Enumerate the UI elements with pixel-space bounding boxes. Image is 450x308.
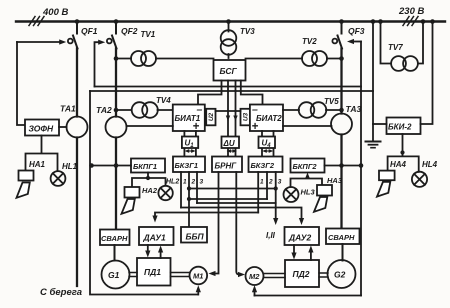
wire TV2 to gen2 bus <box>327 58 342 60</box>
node BKPG2 on trip line <box>359 163 364 168</box>
svg-text:БСГ: БСГ <box>220 66 238 76</box>
wire trip bus <box>95 86 362 88</box>
lamp HL1 <box>51 162 78 186</box>
wire gen2 bus (QF3 down) <box>340 49 342 229</box>
svg-text:QF2: QF2 <box>121 26 138 36</box>
svg-text:I,II: I,II <box>266 231 276 240</box>
arrow into DAU1 <box>152 216 157 223</box>
horn HA2 <box>122 186 158 214</box>
node return-line top junction <box>371 19 376 24</box>
transformer TV1 <box>131 30 156 66</box>
svg-text:БКПГ1: БКПГ1 <box>133 162 157 171</box>
wire BIAT2 to TV5 <box>283 109 299 111</box>
svg-text:QF3: QF3 <box>348 26 365 36</box>
node BKPG1 split <box>146 176 150 180</box>
lamp HL3 <box>284 187 316 202</box>
svg-text:НА1: НА1 <box>29 160 46 169</box>
pin 1 BKZG2 <box>257 172 259 213</box>
block ZOFN <box>25 120 59 136</box>
svg-text:230 В: 230 В <box>398 6 424 17</box>
svg-text:БИАТ2: БИАТ2 <box>256 114 282 123</box>
svg-text:QF1: QF1 <box>81 26 98 36</box>
svg-text:2: 2 <box>191 179 196 186</box>
wire TA2 to BIAT1 <box>127 125 173 127</box>
arrow U1 span <box>185 149 196 153</box>
svg-text:+: + <box>252 121 259 133</box>
transformer TV2 <box>302 37 327 66</box>
svg-text:U3: U3 <box>243 112 250 121</box>
wire bottom right return <box>255 295 362 297</box>
wire BRNG pin M1 <box>213 172 219 274</box>
wire SVARN1 to G1 <box>114 245 116 261</box>
block BIAT2 <box>250 104 283 134</box>
block BKI-2 <box>387 118 421 135</box>
current transformer TA2 <box>106 117 127 138</box>
block SVARN2 <box>326 229 360 245</box>
node BKPG2 on gen2 bus <box>339 163 344 168</box>
wire BSG to TV2 <box>246 58 303 60</box>
node TV3 top junction <box>226 19 231 24</box>
shaft M2-PD2 <box>264 274 286 278</box>
wire DAU2-PD2 down arrow <box>293 245 295 254</box>
wire BKI-2 down split <box>388 134 419 172</box>
wire TV1 left <box>116 58 131 60</box>
wire routing H4 <box>181 208 302 221</box>
transformer TV7 <box>381 22 424 71</box>
wire PD2-DAU2 up arrow <box>310 251 312 261</box>
wire U4 right drop <box>273 131 275 157</box>
svg-text:ДАУ1: ДАУ1 <box>143 233 166 243</box>
svg-text:С берега: С берега <box>40 287 82 298</box>
svg-text:HL3: HL3 <box>301 188 316 197</box>
node BKI2 right top junction <box>430 19 435 24</box>
svg-text:ТА2: ТА2 <box>96 105 112 115</box>
breaker QF1 <box>68 22 98 49</box>
node BKPG1 on gen1 bus <box>114 163 119 168</box>
svg-text:БКЗГ1: БКЗГ1 <box>175 161 199 170</box>
svg-text:ПД1: ПД1 <box>144 267 161 277</box>
breaker QF3 <box>332 22 364 49</box>
arrow into DAU2 <box>299 218 304 225</box>
block SVARN1 <box>100 230 130 246</box>
wire U2-U3 link <box>216 110 241 112</box>
wire QF2 trip arrow <box>95 40 106 87</box>
ground <box>366 142 381 148</box>
pin 2 BKZG2 <box>266 172 268 199</box>
wire routing H2 <box>189 198 267 200</box>
node TV7 right top junction <box>421 19 426 24</box>
node TV2 tap <box>339 56 344 61</box>
arrow I,II down <box>273 218 278 225</box>
pin 3 BKZG2 <box>275 172 277 221</box>
svg-text:TV3: TV3 <box>240 27 255 36</box>
current transformer TA1 <box>67 117 88 138</box>
node TV7 left top junction <box>378 19 383 24</box>
pin 2 BKZG1 <box>188 172 190 227</box>
wire return bus left drop <box>90 91 198 295</box>
motor drive PD1 <box>137 258 171 286</box>
shaft PD2-G2 <box>319 273 328 277</box>
wire ZOFN down to HA1/HL1 <box>26 136 58 172</box>
wire ZOFN to TA1 <box>59 126 67 128</box>
transformer TV3 <box>221 22 256 59</box>
wire BKPG1 down split <box>132 173 166 188</box>
svg-text:HL4: HL4 <box>422 160 438 169</box>
break mark left <box>29 17 44 26</box>
generator G2 <box>328 260 356 288</box>
wire U1 left drop <box>183 131 185 157</box>
node TV5 tap <box>339 108 344 113</box>
block BKZG1 <box>173 157 205 173</box>
block BKZG2 <box>249 157 283 173</box>
svg-text:ПД2: ПД2 <box>293 269 310 279</box>
node QF1 top junction <box>75 19 80 24</box>
break mark right <box>403 17 418 26</box>
node QF2 top junction <box>114 19 119 24</box>
arrow dU right <box>233 116 237 122</box>
wire BKI-2 right <box>421 22 433 125</box>
svg-text:М2: М2 <box>249 272 260 281</box>
svg-text:–: – <box>197 104 203 116</box>
motor drive PD2 <box>285 260 319 287</box>
node TV1 tap <box>114 56 119 61</box>
svg-text:TV4: TV4 <box>156 96 171 105</box>
svg-text:400 В: 400 В <box>42 7 68 18</box>
arrow M1 bottom <box>197 290 199 295</box>
wire BIAT2 to TA3 <box>283 125 332 127</box>
wire QF3 trip/return vertical <box>360 42 362 296</box>
svg-text:ТА3: ТА3 <box>346 104 362 114</box>
horn HA4 <box>377 160 407 197</box>
block U4 <box>259 137 276 150</box>
svg-text:БРНГ: БРНГ <box>215 162 238 171</box>
node BKPG1 on return line <box>89 163 94 168</box>
wire U1 right drop <box>195 131 197 157</box>
block BKPG2 <box>291 159 325 173</box>
motor M1 <box>190 267 208 285</box>
wire gen1 bus (QF2 down) <box>115 49 117 230</box>
svg-text:М1: М1 <box>193 272 203 281</box>
svg-text:ББП: ББП <box>186 232 205 242</box>
svg-text:ЗОФН: ЗОФН <box>29 124 54 134</box>
wire BKI-2 left <box>373 123 387 125</box>
block BBP <box>181 227 207 243</box>
svg-text:TV1: TV1 <box>141 30 156 39</box>
wire return bus <box>90 90 373 92</box>
svg-text:–: – <box>252 104 258 116</box>
horn HA3 <box>314 176 343 212</box>
svg-text:БКПГ2: БКПГ2 <box>293 162 318 171</box>
svg-text:3: 3 <box>278 179 282 186</box>
svg-text:G2: G2 <box>334 270 346 280</box>
wire dU left drop <box>227 81 229 157</box>
block BKPG1 <box>131 159 165 173</box>
svg-text:2: 2 <box>268 179 273 186</box>
wire routing H3 <box>197 202 276 204</box>
shaft PD1-M1 <box>171 273 190 277</box>
block BRNG <box>212 157 242 173</box>
arrow dU left <box>226 116 230 122</box>
svg-text:TV5: TV5 <box>324 97 339 106</box>
wire PD1-DAU1 up arrow <box>160 251 162 259</box>
node BKI-2 split <box>400 150 404 154</box>
arrow dU span <box>227 149 237 153</box>
block U1 <box>182 137 198 150</box>
node QF3 top junction <box>339 19 344 24</box>
svg-text:БКИ-2: БКИ-2 <box>388 123 412 132</box>
wire BKPG2 down split <box>291 177 323 188</box>
svg-text:БКЗГ2: БКЗГ2 <box>251 161 275 170</box>
svg-text:НА4: НА4 <box>390 160 407 169</box>
wire QF1 trip arrow from ZOFN <box>17 39 66 125</box>
svg-text:НА2: НА2 <box>142 186 158 195</box>
svg-text:1: 1 <box>260 179 264 186</box>
block DAU2 <box>285 227 320 245</box>
wire DAU1-PD1 down arrow <box>147 245 149 252</box>
block U3 sensor <box>241 109 250 126</box>
svg-text:HL1: HL1 <box>62 162 78 171</box>
wire U4 left drop <box>261 131 263 157</box>
wire shore bus (QF1 down) <box>76 49 78 287</box>
wire BSG right drop to BIAT2 <box>241 81 263 105</box>
block U2 sensor <box>206 109 215 126</box>
shaft G1-PD1 <box>129 273 137 277</box>
svg-text:3: 3 <box>200 179 204 186</box>
transformer TV4 <box>132 96 172 118</box>
node TV4 tap <box>114 108 119 113</box>
wire routing H1 <box>189 188 276 190</box>
wire 400V top bus <box>16 20 445 22</box>
svg-text:TV2: TV2 <box>302 37 317 46</box>
svg-text:TV7: TV7 <box>388 43 403 52</box>
wire BKPG1 to gen1 bus <box>92 165 132 167</box>
svg-text:ТА1: ТА1 <box>60 104 76 114</box>
svg-text:ДАУ2: ДАУ2 <box>288 233 311 243</box>
svg-text:U2: U2 <box>208 112 215 121</box>
svg-text:HL2: HL2 <box>166 179 179 186</box>
arrow BKPG2 up <box>305 173 310 179</box>
wire BRNG pin M2 <box>236 172 241 275</box>
breaker QF2 <box>107 22 138 49</box>
wire dU right drop <box>235 81 237 157</box>
wire TV4 left <box>116 109 132 111</box>
horn HA1 <box>17 160 46 198</box>
wire QF3 trip arrow <box>347 39 361 44</box>
wire routing H5 <box>155 213 258 219</box>
wire TV4 to BIAT1 <box>158 109 173 111</box>
svg-text:НА3: НА3 <box>327 176 343 185</box>
wire TV1 to BSG <box>156 58 214 60</box>
wire BKPG2 to gen2 bus <box>325 165 362 167</box>
wire TV5 to gen2 bus <box>326 109 342 111</box>
wire SVARN2 to G2 <box>342 244 344 261</box>
block BIAT1 <box>173 104 205 134</box>
lamp HL4 <box>412 160 438 187</box>
wire 230V/ground vertical <box>372 22 374 142</box>
arrow U4 span <box>262 149 273 153</box>
svg-text:ΔU: ΔU <box>223 139 235 148</box>
pin 1 BKZG1 <box>180 172 182 208</box>
lamp HL2 <box>158 179 179 201</box>
svg-text:СВАРН: СВАРН <box>328 233 355 242</box>
svg-text:1: 1 <box>183 179 187 186</box>
svg-text:G1: G1 <box>108 270 120 280</box>
block BSG <box>214 60 246 81</box>
block DAU1 <box>139 227 174 245</box>
arrow M2 bottom <box>254 290 256 296</box>
block dU <box>222 137 240 149</box>
transformer TV5 <box>299 97 340 118</box>
wire BSG left drop to BIAT1 <box>198 81 222 105</box>
svg-text:СВАРН: СВАРН <box>101 234 128 243</box>
motor M2 <box>246 267 264 285</box>
current transformer TA3 <box>331 114 352 135</box>
pin 3 BKZG1 <box>196 172 198 203</box>
generator G1 <box>102 261 130 289</box>
